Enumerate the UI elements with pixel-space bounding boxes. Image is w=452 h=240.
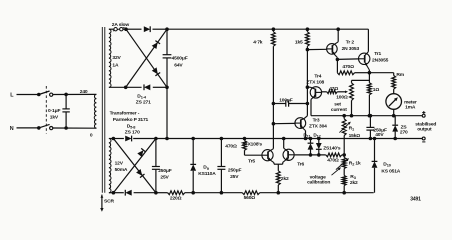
wire negative rail left — [156, 192, 168, 194]
svg-text:100Ω: 100Ω — [336, 95, 348, 101]
svg-text:250μF: 250μF — [158, 168, 172, 174]
svg-text:560Ω: 560Ω — [244, 195, 256, 201]
svg-text:Tr3: Tr3 — [313, 118, 320, 124]
svg-text:64V: 64V — [174, 62, 183, 68]
wire aux bridge diagonal TL-BR — [113, 139, 155, 193]
svg-text:Transformer -: Transformer - — [110, 110, 140, 116]
wire Tr1 emitter to 1R — [368, 73, 370, 83]
svg-text:240: 240 — [80, 89, 88, 95]
wire 0V rail — [156, 138, 422, 140]
svg-text:47Ω: 47Ω — [329, 86, 338, 92]
diode D2 (bridge bottom) — [144, 84, 150, 90]
svg-text:1kV: 1kV — [50, 115, 59, 121]
svg-text:D5-8: D5-8 — [127, 124, 137, 130]
transistor Tr1 2N3055 — [359, 51, 389, 70]
svg-text:470Ω: 470Ω — [342, 64, 354, 70]
wire node A vertical (Tr5 collector / Tr3 base) — [272, 46, 274, 149]
wire pot bottom to output rail — [350, 101, 353, 117]
bridge label D1-4 ZS 271 — [136, 93, 151, 105]
wire top rail bridge section — [125, 28, 169, 31]
svg-text:0: 0 — [90, 133, 93, 139]
label voltage calibration — [307, 167, 341, 185]
svg-text:ZTX 108: ZTX 108 — [306, 80, 324, 86]
svg-text:meter: meter — [404, 99, 417, 105]
svg-text:Tr6: Tr6 — [297, 162, 304, 168]
svg-text:40V: 40V — [375, 132, 384, 138]
svg-text:D1-4: D1-4 — [137, 93, 147, 99]
transformer screen SCR — [100, 195, 114, 212]
diode D7 (on aux diagonal TL-BR) — [136, 169, 144, 178]
wire live to capacitor — [53, 93, 97, 95]
transformer primary winding 240V — [80, 89, 97, 139]
wire aux bridge diagonal BL-TR — [113, 139, 155, 193]
svg-text:ZTX 304: ZTX 304 — [309, 123, 327, 129]
resistor 470R (Tr1 base-emitter) — [337, 59, 354, 74]
wire negative rail right — [260, 192, 374, 194]
label ZS140s — [323, 145, 341, 151]
wire 470R to Tr1 emitter node — [355, 72, 370, 74]
svg-text:270: 270 — [400, 129, 408, 135]
svg-text:2k2: 2k2 — [281, 176, 289, 182]
svg-text:ZS 271: ZS 271 — [136, 99, 151, 105]
svg-text:3491: 3491 — [410, 197, 421, 203]
wire Tr3 emitter to 0V rail — [304, 131, 307, 140]
wire set-current pot top — [352, 80, 370, 82]
transformer secondary 12V 50mA — [109, 139, 128, 193]
svg-text:0·1μF: 0·1μF — [48, 108, 60, 114]
resistor 470R (Tr5 base feed) — [225, 137, 246, 155]
svg-text:2k2: 2k2 — [350, 180, 358, 186]
wire Tr1 collector to rail corner — [367, 29, 369, 51]
node Tr2 emitter junction — [336, 58, 339, 61]
transistor Tr5 ZTX108 — [248, 149, 274, 165]
wire secondary to bridge lower — [109, 86, 126, 88]
wire aux bridge top side — [109, 137, 157, 140]
svg-text:ZS140's: ZS140's — [323, 145, 341, 151]
svg-text:ZTX108's: ZTX108's — [242, 142, 263, 148]
diode D5 (aux bridge top) — [125, 136, 131, 142]
svg-text:output: output — [417, 127, 432, 133]
diode D3 (on diagonal TL-BR) — [152, 67, 160, 75]
wire emitter coupling bar — [274, 162, 283, 164]
resistor 47R (Tr4 base) — [322, 86, 339, 94]
wire bridge negative down to 0V rail — [166, 87, 169, 140]
transistor Tr2 2N3053 — [327, 39, 360, 57]
svg-text:current: current — [331, 107, 347, 113]
svg-text:1A: 1A — [112, 63, 119, 69]
svg-text:Tr1: Tr1 — [374, 51, 381, 57]
svg-text:calibration: calibration — [307, 179, 330, 185]
svg-text:N: N — [10, 126, 14, 132]
svg-text:2N 3053: 2N 3053 — [342, 46, 360, 52]
potentiometer R2 1k (voltage calibration) — [336, 158, 361, 170]
diode D1 (bridge top) — [144, 26, 150, 32]
svg-text:KS110A: KS110A — [198, 171, 216, 177]
capacitor 250uF 25V (aux reservoir) — [152, 139, 172, 193]
label D11 D12 — [303, 132, 321, 138]
svg-text:32V: 32V — [112, 55, 121, 61]
resistor 560R (in negative rail) — [242, 191, 259, 201]
wire top positive rail — [167, 28, 368, 30]
wire bridge bottom side — [124, 86, 168, 89]
svg-text:250μF: 250μF — [228, 167, 242, 173]
transistor Tr4 ZTX108 (current limiter) — [306, 73, 324, 99]
svg-text:220Ω: 220Ω — [170, 195, 182, 201]
resistor 1k5 (Tr2 base feed) — [295, 28, 309, 46]
terminal stabilised output negative — [422, 137, 425, 142]
wire bridge diagonal TL-BR — [126, 29, 167, 87]
resistor 4.7k (Tr5 collector load) — [253, 28, 275, 46]
wire bridge diagonal BL-TR — [126, 29, 167, 87]
resistor 2k2 (tail) — [276, 164, 289, 194]
svg-text:Tr5: Tr5 — [248, 158, 255, 164]
transistor Tr3 ZTX304 — [295, 118, 327, 131]
wire node B vertical (Tr2 base / Tr3 collector) — [304, 46, 309, 119]
svg-text:1mA: 1mA — [405, 105, 416, 111]
diode D11 ZS140 — [308, 137, 314, 156]
label stabilised output — [415, 122, 436, 133]
svg-text:100pF: 100pF — [279, 98, 293, 104]
capacitor 100pF (compensation) — [272, 98, 309, 107]
diode D10 KS051A — [372, 137, 401, 193]
resistor 470R (Tr6 base) — [326, 153, 346, 164]
svg-text:470Ω: 470Ω — [327, 158, 339, 164]
svg-text:SCR: SCR — [104, 198, 114, 204]
capacitor 250uF 25V (aux smoothing) — [217, 137, 241, 194]
svg-text:2N3055: 2N3055 — [372, 57, 389, 63]
label ZTX108s — [242, 142, 263, 148]
svg-text:ZS 170: ZS 170 — [125, 129, 140, 135]
meter 1mA (moving coil) — [386, 89, 417, 117]
svg-text:4500μF: 4500μF — [172, 55, 188, 61]
wire aux bridge bottom side — [109, 191, 157, 194]
transformer core — [102, 27, 105, 193]
capacitor 250uF 40V (output) — [366, 114, 387, 139]
terminal stabilised output positive — [422, 111, 425, 117]
diode D6 (aux bridge bottom) — [125, 190, 131, 196]
svg-text:Parmeko P 3171: Parmeko P 3171 — [113, 117, 149, 123]
wire negative rail middle — [185, 192, 243, 194]
svg-text:25V: 25V — [160, 174, 169, 180]
wire Tr6 collector to 0V rail — [282, 137, 285, 148]
wire 1R to output rail — [368, 95, 371, 117]
svg-text:12V: 12V — [115, 160, 124, 166]
wire Tr1 emitter node to Rm — [369, 73, 393, 76]
diode D8 (on aux diagonal BL-TR) — [137, 148, 145, 157]
node N (mains neutral input) — [10, 126, 39, 132]
resistor 1R (current sense) — [368, 83, 380, 95]
figure number — [410, 197, 421, 203]
svg-text:15kΩ: 15kΩ — [349, 133, 361, 139]
switch gang dashed link — [45, 86, 47, 134]
transformer label — [110, 110, 149, 123]
svg-text:470Ω: 470Ω — [225, 143, 237, 149]
svg-text:4·7k: 4·7k — [253, 39, 263, 45]
wire Tr6 base line — [295, 154, 326, 156]
node Tr1 emitter junction — [368, 70, 371, 74]
svg-text:D10: D10 — [383, 161, 390, 167]
resistor Rm (meter multiplier) — [392, 72, 405, 89]
wire neutral to capacitor — [53, 127, 97, 129]
diode D4 (on diagonal BL-TR) — [152, 41, 160, 49]
resistor 220R (in negative rail) — [168, 191, 185, 202]
diode D12 ZS140 — [316, 137, 322, 156]
switch S1b (neutral pole) — [38, 124, 53, 129]
wire Tr4 emitter to output rail corner — [310, 99, 312, 115]
svg-text:1k: 1k — [355, 161, 361, 167]
svg-text:set: set — [334, 102, 341, 108]
svg-text:KS 051A: KS 051A — [381, 168, 400, 174]
svg-text:Rm: Rm — [396, 72, 404, 78]
wire Tr5 base — [245, 154, 262, 156]
wire Tr2 base — [307, 48, 326, 50]
svg-text:1Ω: 1Ω — [373, 87, 380, 93]
capacitor 4500uF 64V reservoir — [163, 29, 188, 87]
wire Tr2 collector to rail — [337, 28, 340, 42]
svg-text:Tr 2: Tr 2 — [346, 39, 355, 45]
capacitor 0.1uF 1kV across mains — [48, 93, 70, 129]
wire Tr2 emitter to Tr1 base — [337, 58, 358, 61]
wire Tr4 collector to node B — [306, 86, 310, 89]
resistor R3 2k2 — [342, 169, 358, 195]
wire Tr3 base from node A — [272, 122, 295, 125]
transformer secondary 32V 1A — [109, 29, 122, 87]
wire stabilised output rail — [311, 115, 422, 117]
diode D9 KS110A (zener on aux rail) — [190, 137, 216, 194]
svg-text:50mA: 50mA — [115, 167, 128, 173]
transistor Tr6 ZTX108 — [283, 148, 305, 168]
potentiometer 100R set current — [331, 83, 354, 113]
svg-text:25V: 25V — [230, 174, 239, 180]
node L (mains live input) — [10, 92, 39, 98]
svg-text:Tr4: Tr4 — [314, 73, 321, 79]
svg-text:1k5: 1k5 — [295, 39, 303, 45]
diode ZS270 (across output) — [392, 116, 408, 140]
switch S1a (live pole) — [38, 91, 53, 96]
wire R1 bottom to R2 (crosses 0V rail) — [343, 136, 345, 158]
bridge label D5-8 ZS 170 — [125, 124, 140, 136]
fuse 2A slow — [109, 22, 129, 31]
potentiometer R1 15k — [339, 114, 360, 139]
